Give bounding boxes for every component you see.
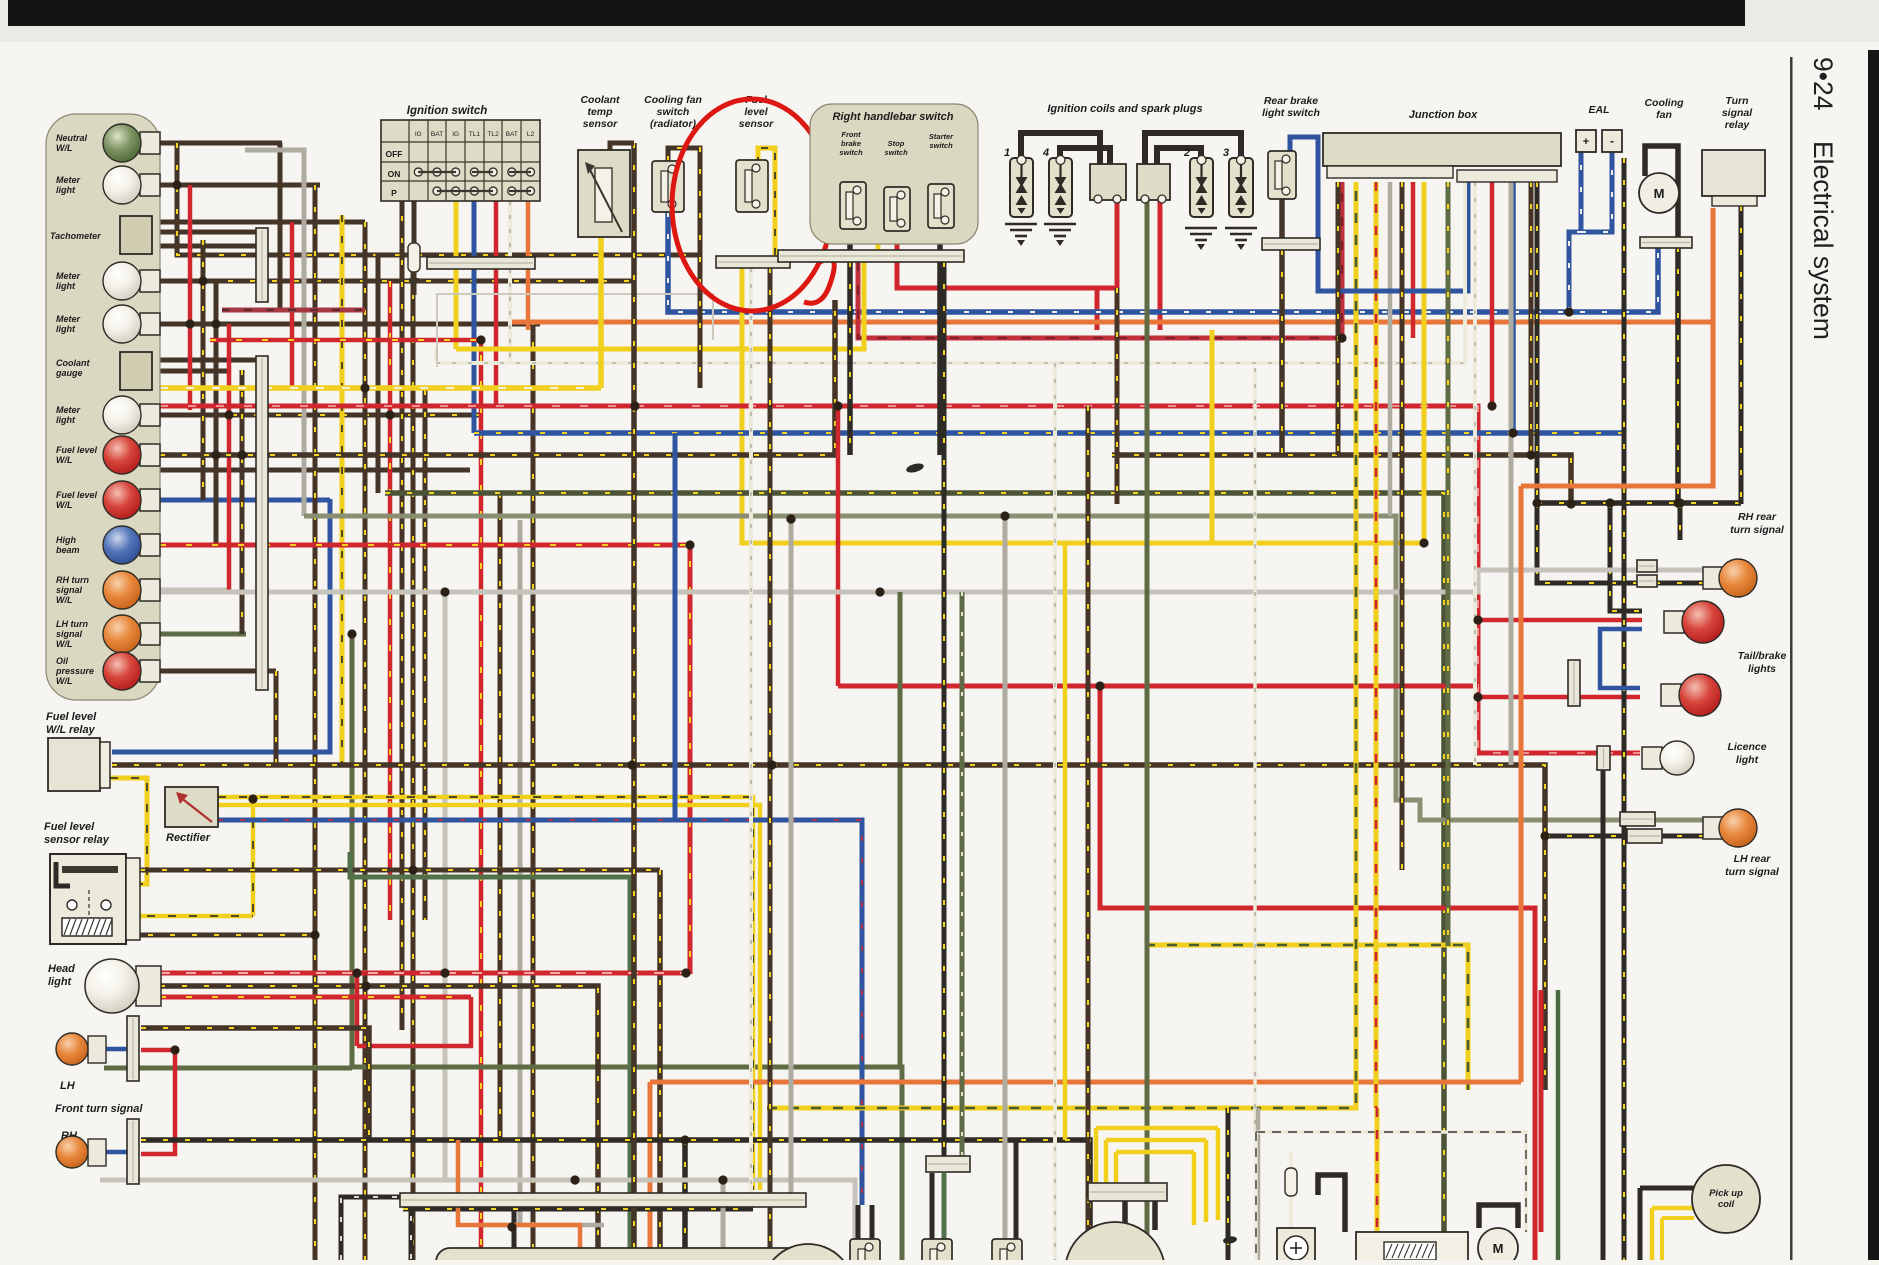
wire [160,279,228,284]
bottom circle left [762,1244,854,1265]
wire [1446,182,1451,946]
svg-text:signal: signal [56,629,83,639]
junction [507,1222,516,1231]
wire [443,592,448,1180]
junction [786,514,795,523]
long splice bar [400,1193,806,1207]
high beam light [103,526,160,564]
wire [160,406,1640,753]
wire [160,141,282,146]
junction [685,540,694,549]
junction [1473,615,1482,624]
wire [1622,158,1627,1260]
svg-text:9•24: 9•24 [1808,57,1838,111]
wire [1422,182,1427,543]
junction [767,760,776,769]
wire [274,671,279,765]
right page edge band [1868,50,1879,1260]
wire [412,201,417,243]
coil 4 HT lead [1060,148,1110,164]
wire [1003,516,1008,1239]
svg-text:TL1: TL1 [469,131,481,138]
tail brake bulb lower [1661,674,1721,716]
wire [141,1140,1090,1260]
junction [347,629,356,638]
wire [1652,1206,1694,1211]
svg-text:switch: switch [657,106,690,118]
wire [856,1205,861,1239]
svg-text:light: light [56,324,76,334]
ground coil 3 [1225,228,1257,240]
svg-text:lights: lights [1748,663,1776,675]
rear brake light switch [1268,151,1296,199]
wire [222,308,365,313]
svg-text:light switch: light switch [1262,107,1320,119]
wire [1463,182,1467,363]
wire [1289,1152,1293,1168]
junction [718,1175,727,1184]
wire [531,320,536,1260]
wire [216,322,540,327]
svg-text:Rectifier: Rectifier [166,832,211,844]
wire [1192,1152,1197,1225]
fuel level warning light 2 [103,481,160,519]
fuel level sensor bar [716,256,790,268]
junction [170,1045,179,1054]
svg-text:4: 4 [1042,147,1049,159]
page rule [1790,57,1793,1260]
fuel level warning light 1 [103,436,160,474]
svg-text:TL2: TL2 [487,131,499,138]
wire [160,588,230,593]
svg-text:Licence: Licence [1727,741,1766,753]
wire [1375,1108,1380,1232]
wire [1569,152,1581,312]
wire [1640,1186,1694,1191]
ignition coil 2 [1190,156,1213,218]
svg-text:Pick up: Pick up [1709,1188,1743,1199]
svg-text:coil: coil [1718,1199,1735,1210]
svg-text:LH rear: LH rear [1734,853,1772,865]
junction [408,865,417,874]
wire [104,1047,127,1052]
wire [878,170,890,250]
svg-text:switch: switch [839,148,863,157]
wire [847,262,853,455]
scan speck 2 [1222,1235,1237,1244]
svg-text:Junction box: Junction box [1409,109,1478,121]
wire [1678,503,1683,540]
svg-text:light: light [56,185,76,195]
svg-text:relay: relay [1725,119,1751,131]
wire [1318,1175,1345,1232]
wire [1521,208,1713,486]
junction [440,587,449,596]
neutral warning light [103,124,160,162]
svg-text:W/L: W/L [56,639,73,649]
wire [126,914,253,919]
wire [1556,990,1561,1260]
svg-text:Fuel level: Fuel level [56,490,98,500]
wire [1122,1201,1128,1230]
wire [650,1080,1521,1085]
turn signal relay [1702,150,1765,196]
wire [350,852,630,1250]
wire [160,300,835,455]
junction [361,981,370,990]
wire [1145,199,1150,1260]
wire [942,262,947,1158]
starter relay [1356,1232,1468,1265]
wire [838,684,1478,689]
svg-text:Electrical system: Electrical system [1808,141,1838,340]
svg-text:IG: IG [415,131,422,138]
wire [721,1180,726,1260]
junction [185,319,194,328]
wire [648,1082,653,1260]
wire [740,256,745,268]
wire [610,143,634,150]
alternator bar [1088,1183,1167,1201]
wire [742,268,1424,543]
wire [1662,1216,1694,1220]
splice bar left lower [256,356,268,690]
big bottom lozenge [436,1248,816,1265]
wire [1279,199,1285,238]
licence connector [1597,746,1610,770]
licence light bulb [1642,741,1694,775]
wire [152,369,230,374]
svg-text:RH rear: RH rear [1738,511,1777,523]
wire [1145,945,1468,1090]
wire [214,281,219,545]
wire [512,1207,517,1250]
svg-text:Ignition switch: Ignition switch [407,105,488,117]
wire [290,222,295,388]
wire [1204,1140,1209,1222]
wire [363,222,368,1260]
wire [1063,543,1068,1140]
wire [1610,503,1642,611]
wire [1638,1188,1643,1260]
wire [1539,990,1544,1232]
wire [1112,455,1571,504]
wire [1256,1108,1261,1260]
igniter unit B [1137,164,1170,200]
LH rear turn signal bulb [1703,809,1757,847]
small bar B [926,1156,970,1172]
svg-text:+: + [1583,136,1589,148]
wire [937,262,943,455]
wire [494,201,499,257]
wire [227,324,232,592]
ignition coil 4 [1049,156,1072,218]
svg-text:temp: temp [587,106,613,118]
wire [1411,182,1416,338]
rectifier [165,787,218,827]
wire [1253,368,1257,1132]
wire [1581,152,1612,232]
wire [456,262,864,349]
coolant temp sensor [578,150,630,237]
svg-text:switch: switch [884,148,908,157]
wire [341,1197,411,1260]
junction [630,401,639,410]
junction [1508,428,1517,437]
wire [152,220,365,225]
handlebar splice bar [778,250,964,262]
wire [352,1067,902,1260]
wire [1003,1180,1008,1239]
wire [673,433,678,820]
wire [1537,500,1741,506]
wire [228,279,634,284]
svg-text:Fuel level: Fuel level [56,445,98,455]
switch bottom 2 [922,1239,952,1265]
svg-text:RH turn: RH turn [56,575,89,585]
svg-text:light: light [1736,754,1759,766]
wire [160,545,690,974]
wire [160,413,232,418]
wire [240,370,245,634]
junction [198,276,207,285]
svg-text:W/L: W/L [56,143,73,153]
wire [1478,618,1642,623]
svg-text:Cooling: Cooling [1644,97,1684,109]
wire [152,230,256,235]
junction box [1323,133,1561,166]
junction [875,587,884,596]
junction [385,410,394,419]
wire [388,281,393,920]
ignition coil 1 [1010,156,1033,218]
svg-text:Meter: Meter [56,405,81,415]
coil 1 HT lead [1021,133,1100,164]
wire [160,543,236,548]
svg-text:Front turn signal: Front turn signal [55,1103,143,1115]
wire [434,349,438,363]
ground coil 4 [1044,224,1076,236]
wire [870,1205,875,1239]
wire [767,182,1356,1108]
wire [1094,1128,1099,1183]
wire [232,413,480,418]
svg-text:Tail/brake: Tail/brake [1738,650,1787,662]
coil 2 HT lead [1157,148,1201,164]
svg-text:Fuel level: Fuel level [44,821,95,833]
wire [682,1140,688,1260]
svg-text:Front: Front [841,130,861,139]
wire [1106,1138,1206,1143]
wire [1490,182,1495,406]
wire [160,971,686,976]
splice bar left upper [256,228,268,302]
junction [352,968,361,977]
fuel level W/L relay [48,738,100,791]
svg-text:Meter: Meter [56,314,81,324]
wire [1096,1126,1218,1131]
wire [400,150,405,1030]
meter light 2 [103,262,160,300]
wire [1158,199,1163,330]
front brake switch [840,182,866,229]
wire [218,820,862,1205]
EAL minus box [1602,130,1622,152]
wire [436,182,1465,363]
junction [310,930,319,939]
switch bottom 1 [850,1239,880,1265]
wire [160,986,598,1250]
wire [454,269,459,349]
wire [188,185,193,410]
svg-text:P: P [391,188,397,198]
wire [1152,1201,1158,1230]
junction [476,335,485,344]
wire [631,143,637,1260]
junction [786,514,795,523]
wire [385,493,1444,1260]
wire [512,320,1713,325]
junction [1532,498,1541,507]
cooling fan motor [1639,173,1679,213]
svg-text:Cooling fan: Cooling fan [644,94,702,106]
wire [1095,288,1100,330]
head light [136,966,161,1006]
wire [483,1223,604,1228]
wire [126,933,315,938]
wire [494,269,499,406]
wire [1100,686,1535,1260]
svg-text:W/L: W/L [56,595,73,605]
wire [836,406,841,686]
svg-text:W/L: W/L [56,676,73,686]
svg-text:LH turn: LH turn [56,619,88,629]
junction [1526,450,1535,459]
wire [1116,1150,1194,1155]
wire [1256,1132,1526,1232]
meter light 4 [103,396,160,434]
wire [508,201,512,257]
wire [1675,247,1681,504]
junction [360,383,369,392]
svg-text:Neutral: Neutral [56,133,88,143]
wire [423,390,428,920]
wire [376,254,381,493]
wire [160,183,320,188]
wire [100,1180,855,1260]
svg-text:sensor relay: sensor relay [44,834,110,846]
coolant gauge [120,352,152,390]
svg-text:Coolant: Coolant [56,358,90,368]
wire [1650,1208,1655,1260]
junction [211,319,220,328]
junction [1337,333,1346,342]
wire [1279,250,1285,455]
wire [140,868,660,873]
RH rear turn signal bulb [1703,559,1757,597]
wire [1510,182,1516,433]
wire [1600,629,1642,688]
wire [160,385,601,391]
svg-text:sensor: sensor [583,118,618,130]
wire [160,322,216,327]
wire [1115,288,1120,504]
wire [498,493,503,1140]
junction [248,794,257,803]
junction [1487,401,1496,410]
stop switch [884,187,910,231]
svg-text:Stop: Stop [888,139,905,148]
ignition switch [381,120,540,201]
wire [1086,406,1091,1260]
wire [1400,182,1405,870]
scan speck [905,462,924,474]
wire [1529,182,1534,455]
red annotation circle [672,99,832,311]
wire [526,269,531,322]
wire [313,185,318,1260]
wire [1374,182,1379,1108]
wire [1053,363,1057,1260]
svg-text:Right handlebar switch: Right handlebar switch [832,111,953,123]
wire [1210,330,1215,543]
wire [1104,1140,1109,1183]
wire [160,468,470,473]
tachometer [120,216,152,254]
wire [1473,182,1477,765]
wire [1537,503,1705,583]
wire [960,592,965,1172]
wire [1226,1108,1231,1260]
wire [598,237,604,388]
wire [768,268,773,1260]
fuel level sensor relay [50,854,126,944]
cooling fan switch [652,161,684,212]
svg-text:beam: beam [56,545,80,555]
wire [218,805,760,1190]
fuel level sensor [736,160,768,212]
svg-text:Starter: Starter [929,132,954,141]
junction [224,410,233,419]
svg-text:Meter: Meter [56,271,81,281]
wire [160,498,330,503]
wire [508,269,512,363]
wire [895,231,900,250]
wire [355,973,360,1046]
svg-text:BAT: BAT [431,131,443,138]
svg-text:brake: brake [841,139,861,148]
junction [1673,498,1682,507]
junction [1095,681,1104,690]
wire [1535,182,1540,503]
wire [1388,182,1393,516]
svg-text:sensor: sensor [739,118,774,130]
ignition coil 3 [1229,156,1253,218]
svg-text:ON: ON [388,169,401,179]
LH front turn signal [56,1033,106,1065]
svg-text:BAT: BAT [506,131,518,138]
wire [526,322,531,330]
junction [681,968,690,977]
ground coil 1 [1005,224,1037,236]
wire [1479,1205,1518,1228]
svg-text:pressure: pressure [55,666,94,676]
svg-text:level: level [744,106,768,118]
meter light 3 [103,305,160,343]
tail light bar [1568,660,1580,706]
ground coil 2 [1185,228,1217,240]
wire [160,570,1705,592]
